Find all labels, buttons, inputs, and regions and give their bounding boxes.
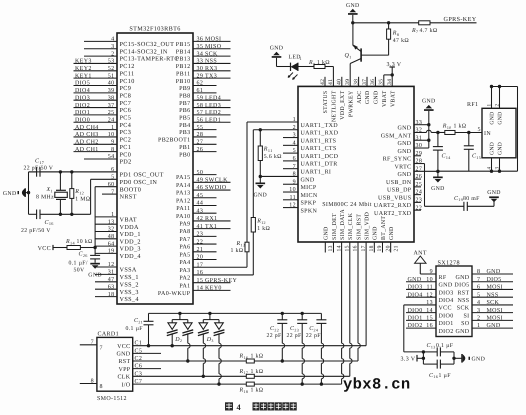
svg-text:0.1 µF/: 0.1 µF/ <box>69 260 88 266</box>
resistor R12 1Mohm (crystal) <box>70 170 91 216</box>
SIM800C left pin 8 GND <box>260 172 315 184</box>
SIM800C left pin 4 UART1_CTS <box>283 140 337 152</box>
wire RST rail / resistor R16 1kohm <box>133 352 358 363</box>
svg-text:46: 46 <box>197 185 204 191</box>
SIM card holder CARD1 SMO-1512 <box>97 331 133 402</box>
svg-text:NSS: NSS <box>205 59 217 65</box>
svg-text:UART1_RI: UART1_RI <box>301 169 332 175</box>
svg-text:45: 45 <box>197 193 204 199</box>
svg-text:RF1: RF1 <box>467 102 478 108</box>
svg-text:16: 16 <box>197 270 204 276</box>
SX1278 right pin 6 RST net MOSI <box>457 285 513 297</box>
STM32 right pin 21 PA5 <box>179 247 216 258</box>
SX1278 left pin 11 DIO3 <box>406 285 454 297</box>
svg-text:24: 24 <box>108 117 115 123</box>
svg-text:4.7 kΩ: 4.7 kΩ <box>420 27 438 34</box>
svg-text:BT_ANT: BT_ANT <box>381 216 387 240</box>
svg-text:1 kΩ: 1 kΩ <box>257 225 270 232</box>
svg-text:PA1: PA1 <box>179 283 190 289</box>
module U? SIM800C <box>298 86 414 242</box>
SIM800C bottom pin 15 SIM_DATA <box>340 209 350 385</box>
svg-text:GND: GND <box>389 226 395 240</box>
svg-text:6: 6 <box>477 285 480 291</box>
svg-text:GND: GND <box>498 142 504 155</box>
SIM800C right pin 27 GND <box>397 166 437 178</box>
svg-text:36: 36 <box>197 37 204 43</box>
RF1 top pins 1,2 to GND <box>487 85 518 171</box>
svg-text:PB5: PB5 <box>179 116 190 122</box>
module SX1278 <box>436 260 472 337</box>
svg-text:37: 37 <box>108 103 115 109</box>
svg-text:7: 7 <box>477 277 480 283</box>
power 3.3V top <box>384 62 402 87</box>
svg-text:MOSI: MOSI <box>487 315 503 321</box>
svg-text:SIM800C 24 Mbit: SIM800C 24 Mbit <box>322 201 372 208</box>
svg-text:GND: GND <box>408 277 422 283</box>
svg-text:PB11: PB11 <box>176 71 191 77</box>
svg-text:DIO2: DIO2 <box>408 323 423 329</box>
svg-text:IN: IN <box>484 131 491 137</box>
STM32 left pin 2 PC13-TAMPER-RTC <box>84 51 179 62</box>
svg-text:DIO5: DIO5 <box>75 81 90 87</box>
SIM800C bottom pin 21 GND <box>389 226 399 252</box>
svg-text:PA3: PA3 <box>179 268 190 274</box>
svg-text:GND: GND <box>397 126 411 132</box>
svg-text:STM32F103RBT6: STM32F103RBT6 <box>129 25 180 32</box>
svg-text:R13: R13 <box>236 241 246 247</box>
svg-text:21: 21 <box>197 247 204 253</box>
STM32 left pin 24 PC4 <box>74 117 132 128</box>
svg-text:PC2: PC2 <box>120 137 132 144</box>
svg-text:VDD_EXT: VDD_EXT <box>340 90 346 119</box>
svg-text:ADC: ADC <box>357 91 363 104</box>
ground right of C19 <box>487 190 501 206</box>
svg-text:18: 18 <box>108 292 115 298</box>
svg-text:60: 60 <box>108 182 115 188</box>
STM32 right pin 28 PB2BOOT1 <box>158 132 216 143</box>
CARD1 pin C7 I/O <box>121 379 142 388</box>
svg-text:22 pF: 22 pF <box>267 333 283 339</box>
svg-text:SCK: SCK <box>457 306 470 312</box>
svg-text:PA6: PA6 <box>179 245 190 251</box>
STM32 left pin 5 PD0 OSC_IN <box>91 175 158 186</box>
svg-text:PB9: PB9 <box>179 86 190 92</box>
SIM800C left pin 11 SPKP <box>283 195 317 207</box>
svg-text:DIO1: DIO1 <box>408 315 423 321</box>
capacitor C22 22pF <box>267 312 288 363</box>
svg-text:DIO5: DIO5 <box>454 283 469 289</box>
svg-text:PB13: PB13 <box>176 57 191 63</box>
svg-text:38: 38 <box>353 79 359 85</box>
SIM800C bottom pin 17 SIM_RST <box>356 214 366 361</box>
wire UART1_TXD to R13 <box>246 122 248 242</box>
SIM800C top pin 39 PWRKEY <box>345 79 354 117</box>
svg-text:12: 12 <box>289 203 296 209</box>
svg-text:VSS_2: VSS_2 <box>120 281 139 288</box>
svg-text:AD CH1: AD CH1 <box>75 147 99 153</box>
CARD1 pin C5 GND <box>116 348 161 357</box>
ground above Q1 <box>346 3 360 23</box>
svg-text:DIO3: DIO3 <box>439 290 454 296</box>
svg-text:STATUS: STATUS <box>323 91 329 114</box>
STM32 right pin 41 PA8 net TX1 <box>179 224 230 235</box>
svg-text:NSS: NSS <box>457 298 469 304</box>
svg-text:RST: RST <box>457 290 469 296</box>
STM32 right pin 43 PA10 <box>176 208 217 219</box>
svg-text:30: 30 <box>416 143 423 149</box>
wire VCC route to 3.3V <box>404 305 425 354</box>
svg-text:PD2: PD2 <box>120 159 132 166</box>
SIM800C left pin 1 UART1_TXD <box>247 117 338 129</box>
svg-text:PA10: PA10 <box>176 214 191 220</box>
svg-text:PA0-WKUP: PA0-WKUP <box>158 291 191 297</box>
SIM800C right pin 22 UART2_TXD <box>374 205 422 217</box>
svg-text:GND: GND <box>88 272 102 278</box>
ground crystal GND tap <box>3 188 30 197</box>
resistor R8 47kohm <box>387 23 410 56</box>
svg-text:47: 47 <box>108 277 115 283</box>
svg-text:1 kΩ: 1 kΩ <box>454 122 467 129</box>
SIM800C left pin 9 MICP <box>283 179 317 191</box>
SX1278 right pin 7 DIO5 net DIO5 <box>454 277 513 289</box>
svg-text:23: 23 <box>416 198 423 204</box>
STM32 left pin 7 NRST <box>102 189 137 200</box>
svg-text:PA14: PA14 <box>176 183 191 189</box>
svg-text:KEY3: KEY3 <box>75 59 92 65</box>
svg-text:KEY1: KEY1 <box>75 73 92 79</box>
svg-text:PB0: PB0 <box>179 152 190 158</box>
STM32 right pin 62 PB9 <box>179 81 216 92</box>
svg-text:LED2: LED2 <box>205 110 221 116</box>
svg-text:DIO1: DIO1 <box>439 321 454 327</box>
svg-text:9: 9 <box>111 140 114 146</box>
svg-text:2: 2 <box>293 125 296 131</box>
MCU U? STM32F103RBT6 <box>117 25 193 304</box>
svg-text:SWDIO: SWDIO <box>205 185 227 191</box>
svg-text:VCC: VCC <box>439 306 452 312</box>
svg-text:GND: GND <box>373 226 379 240</box>
svg-text:C19: C19 <box>454 196 463 202</box>
resistor R12 1kohm (uart) <box>251 218 270 276</box>
svg-text:VSS_1: VSS_1 <box>120 274 139 281</box>
STM32 right pin 16 PA2 <box>179 270 253 281</box>
svg-text:TX3: TX3 <box>205 73 217 79</box>
svg-text:RST: RST <box>118 359 130 365</box>
svg-text:GND: GND <box>455 329 469 335</box>
svg-text:37: 37 <box>362 79 368 85</box>
STM32 left pin 3 PC14-SOC32_IN <box>84 44 168 55</box>
svg-text:PD0 OSC_IN: PD0 OSC_IN <box>120 179 158 186</box>
svg-text:USB_DN: USB_DN <box>386 180 412 186</box>
SIM800C bottom pin 13 GND <box>324 226 334 252</box>
svg-text:SPKP: SPKP <box>301 201 317 207</box>
SIM800C top pin 34 VBAT <box>387 79 396 107</box>
SIM800C left pin 5 UART1_DCD <box>283 148 339 160</box>
STM32 left pin 47 VSS_2 <box>95 277 139 288</box>
svg-text:SIM_CLK: SIM_CLK <box>348 212 354 240</box>
svg-text:50V: 50V <box>74 267 85 273</box>
svg-text:KEY0: KEY0 <box>205 286 222 292</box>
svg-text:GND: GND <box>365 91 371 105</box>
svg-text:PB8: PB8 <box>179 93 190 99</box>
svg-text:PA7: PA7 <box>179 237 190 243</box>
svg-text:64: 64 <box>108 241 115 247</box>
power VCC port <box>38 245 67 252</box>
svg-text:PB7: PB7 <box>179 101 190 107</box>
svg-text:22 pF/50 V: 22 pF/50 V <box>24 166 54 172</box>
svg-text:16: 16 <box>426 323 433 329</box>
svg-text:MOSI: MOSI <box>487 308 503 314</box>
wire hops SIM_DATA drop <box>342 343 344 378</box>
STM32 right pin 50 PA15 <box>176 170 217 181</box>
svg-text:SIM_VDD: SIM_VDD <box>365 212 371 240</box>
svg-text:8: 8 <box>100 384 103 390</box>
STM32 left pin 10 PC2 <box>74 132 132 143</box>
svg-text:CARD1: CARD1 <box>98 331 119 337</box>
svg-text:22: 22 <box>197 239 204 245</box>
wire BOOT0 vertical <box>93 187 96 256</box>
svg-text:42: 42 <box>197 216 204 222</box>
svg-text:12: 12 <box>426 292 433 298</box>
svg-text:PC5: PC5 <box>120 115 132 122</box>
svg-text:5.6 kΩ: 5.6 kΩ <box>264 153 282 160</box>
svg-text:R8: R8 <box>392 31 399 37</box>
svg-text:VSS_4: VSS_4 <box>120 296 139 303</box>
svg-text:52: 52 <box>108 66 115 72</box>
svg-text:UART1_DTR: UART1_DTR <box>301 162 338 168</box>
STM32 right pin 35 PB14 net MISO <box>176 44 231 55</box>
svg-text:DIO0: DIO0 <box>75 117 90 123</box>
SIM800C right pin 29 RF_SYNC <box>383 151 423 163</box>
svg-text:PA15: PA15 <box>176 175 191 181</box>
svg-text:59: 59 <box>197 95 204 101</box>
svg-text:VCC: VCC <box>117 344 130 350</box>
STM32 left pin 9 PC1 <box>74 140 132 151</box>
SX1278 left pin 13 VCC <box>404 300 452 312</box>
transistor Q1 <box>345 23 389 87</box>
capacitor C15 <box>464 132 481 171</box>
svg-text:R7: R7 <box>411 28 418 34</box>
svg-text:GND: GND <box>324 226 330 240</box>
svg-text:51: 51 <box>108 73 115 79</box>
svg-text:C15: C15 <box>472 154 481 160</box>
SIM800C top pin 36 GND <box>370 77 379 104</box>
svg-text:C13: C13 <box>427 343 436 349</box>
svg-text:AD CH2: AD CH2 <box>75 140 99 146</box>
STM32 left pin 8 PC0 <box>74 147 132 158</box>
svg-text:VDDA: VDDA <box>120 224 139 231</box>
svg-text:UART1_DCD: UART1_DCD <box>301 154 339 160</box>
SX1278 right pin 5 NSS net NSS <box>457 292 513 304</box>
svg-text:GND: GND <box>487 190 501 196</box>
svg-text:BOOT0: BOOT0 <box>120 186 142 193</box>
wire I/O rail / resistor R18 1kohm <box>133 382 342 394</box>
ground above LED1 <box>270 46 284 67</box>
SX1278 right pin 1 GND net GND <box>455 323 513 335</box>
resistor R7 4.7kohm <box>411 21 438 34</box>
svg-text:3: 3 <box>111 44 114 50</box>
svg-text:PC14-SOC32_IN: PC14-SOC32_IN <box>120 48 168 55</box>
svg-text:13: 13 <box>108 219 115 225</box>
svg-text:PB2BOOT1: PB2BOOT1 <box>158 138 190 144</box>
svg-text:10: 10 <box>108 132 115 138</box>
LED LED1 <box>277 55 315 80</box>
svg-text:PB4: PB4 <box>179 123 190 129</box>
svg-text:DIO4: DIO4 <box>408 292 423 298</box>
RF block RF1 <box>467 102 516 158</box>
svg-text:UART1_RXD: UART1_RXD <box>301 131 339 137</box>
svg-text:GND: GND <box>301 177 315 183</box>
svg-text:43: 43 <box>197 208 204 214</box>
svg-text:C16: C16 <box>45 220 54 226</box>
svg-text:ybx8.cn: ybx8.cn <box>343 376 411 394</box>
STM32 left pin 38 PC7 <box>74 95 132 106</box>
svg-text:PA4: PA4 <box>179 260 190 266</box>
svg-text:15: 15 <box>197 278 204 284</box>
svg-text:Q1: Q1 <box>345 53 352 59</box>
svg-text:TX1: TX1 <box>205 224 217 230</box>
svg-text:R18: R18 <box>239 387 249 393</box>
svg-text:32: 32 <box>108 227 115 233</box>
svg-text:R12: R12 <box>74 189 84 195</box>
svg-text:38: 38 <box>108 95 115 101</box>
svg-text:DIO4: DIO4 <box>75 88 90 94</box>
svg-text:VRTC: VRTC <box>394 164 411 170</box>
svg-text:SIM_RST: SIM_RST <box>356 214 362 240</box>
svg-text:47 kΩ: 47 kΩ <box>393 37 410 44</box>
capacitor C16 22pF/50V <box>21 210 91 234</box>
svg-text:DIO0: DIO0 <box>439 313 454 319</box>
STM32 right pin 22 PA6 <box>179 239 216 250</box>
svg-text:30: 30 <box>197 66 204 72</box>
STM32 right pin 15 PA1 net GPRS-KEY <box>179 278 237 289</box>
svg-text:2: 2 <box>111 51 114 57</box>
svg-text:USB_VBUS: USB_VBUS <box>378 195 411 201</box>
svg-text:1 µF: 1 µF <box>439 373 452 379</box>
svg-text:VDD_1: VDD_1 <box>120 231 141 238</box>
STM32 right pin 14 PA0-WKUP net KEY0 <box>158 286 231 297</box>
SIM800C right pin 25 USB_DP <box>387 182 422 194</box>
svg-text:PA2: PA2 <box>179 276 190 282</box>
SIM800C bottom pin 20 BT_ANT <box>381 216 391 253</box>
svg-text:28: 28 <box>197 132 204 138</box>
svg-text:PB15: PB15 <box>176 42 191 48</box>
svg-text:61: 61 <box>197 88 204 94</box>
svg-text:DIO3: DIO3 <box>408 285 423 291</box>
svg-text:13: 13 <box>426 300 433 306</box>
svg-text:32: 32 <box>416 128 423 134</box>
svg-text:NSS: NSS <box>487 292 499 298</box>
STM32 right pin 44 PA11 <box>176 201 216 212</box>
svg-text:27: 27 <box>416 166 423 172</box>
SIM800C top pin 35 VBAT <box>379 79 388 107</box>
svg-text:GND: GND <box>397 149 411 155</box>
SIM800C right pin 32 GSM_ANT <box>381 128 438 140</box>
svg-text:26: 26 <box>197 147 204 153</box>
svg-text:4: 4 <box>477 300 480 306</box>
svg-text:GND: GND <box>270 46 284 52</box>
svg-text:1: 1 <box>487 104 493 107</box>
svg-text:RF_SYNC: RF_SYNC <box>383 157 412 163</box>
svg-text:PA5: PA5 <box>179 252 190 258</box>
resistor R9 1kohm (LED) <box>308 59 333 68</box>
svg-text:36: 36 <box>370 79 376 85</box>
svg-text:VSSA: VSSA <box>120 267 137 274</box>
svg-text:PC11: PC11 <box>120 70 135 77</box>
svg-text:GPRS-KEY: GPRS-KEY <box>205 278 237 284</box>
STM32 right pin 56 PB4 net LED1 <box>179 117 230 128</box>
svg-text:80 mF: 80 mF <box>463 196 480 202</box>
STM32 right pin 36 PB15 net MOSI <box>176 37 231 48</box>
svg-text:PC10: PC10 <box>120 78 135 85</box>
SIM800C top pin 42 STATUS <box>320 77 329 114</box>
svg-text:21: 21 <box>393 245 399 251</box>
svg-text:22 pF: 22 pF <box>287 333 303 339</box>
SIM800C right pin 23 UART2_RXD <box>374 198 423 210</box>
svg-text:LED1: LED1 <box>205 117 221 123</box>
svg-text:7: 7 <box>91 340 94 346</box>
svg-text:5: 5 <box>477 292 480 298</box>
svg-text:1: 1 <box>293 117 296 123</box>
STM32 left pin 31 VSS_1 <box>95 270 139 281</box>
svg-text:I/O: I/O <box>121 382 130 388</box>
svg-text:4: 4 <box>487 167 493 170</box>
capacitor C19 80mF on VRTC <box>425 164 495 211</box>
svg-text:GND: GND <box>498 112 504 125</box>
svg-text:GND: GND <box>431 186 445 192</box>
svg-text:GND: GND <box>487 269 501 275</box>
STM32 left pin 48 VDD_2 <box>95 234 141 245</box>
svg-text:C26: C26 <box>79 252 88 258</box>
svg-text:41: 41 <box>328 79 334 85</box>
svg-text:2: 2 <box>477 315 480 321</box>
CARD1 left pin 8 <box>80 378 103 390</box>
svg-text:56: 56 <box>197 117 204 123</box>
svg-text:40: 40 <box>108 81 115 87</box>
svg-text:3: 3 <box>495 167 501 170</box>
svg-text:31: 31 <box>416 135 423 141</box>
svg-text:GND: GND <box>346 3 360 9</box>
svg-text:5: 5 <box>478 127 481 133</box>
svg-text:7: 7 <box>100 345 103 351</box>
svg-text:SPKN: SPKN <box>301 208 318 214</box>
svg-text:1: 1 <box>111 125 114 131</box>
svg-text:GND: GND <box>397 172 411 178</box>
STM32 left pin 18 VSS_4 <box>95 292 139 303</box>
svg-text:1: 1 <box>111 212 114 218</box>
ground right of caps <box>452 352 485 364</box>
STM32 right pin 61 PB8 <box>179 88 216 99</box>
svg-text:R12: R12 <box>256 218 266 224</box>
STM32 left pin 53 PC12 <box>74 59 135 70</box>
resistor R13 1kohm <box>231 241 250 267</box>
wire UART1_RXD to R12 <box>252 130 254 218</box>
svg-text:24: 24 <box>416 190 423 196</box>
svg-text:26: 26 <box>416 174 423 180</box>
STM32 left pin 37 PC6 <box>74 103 132 114</box>
resistor R14 10kohm <box>65 238 95 249</box>
svg-text:54: 54 <box>108 154 115 160</box>
STM32 right pin 42 PA9 net RX1 <box>179 216 230 227</box>
SIM800C bottom pin 19 GND <box>373 226 383 252</box>
svg-text:3: 3 <box>293 133 296 139</box>
svg-text:VDD_3: VDD_3 <box>120 246 141 253</box>
svg-text:9: 9 <box>430 269 433 275</box>
svg-text:GND: GND <box>422 99 436 105</box>
svg-text:GND: GND <box>3 191 17 197</box>
svg-text:PA11: PA11 <box>176 206 190 212</box>
svg-text:29: 29 <box>197 73 204 79</box>
